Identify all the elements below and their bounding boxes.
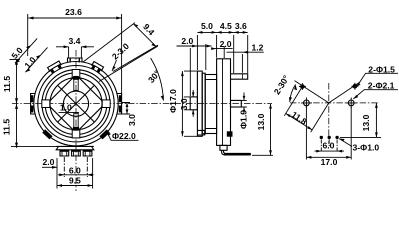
upper-right 30deg tab: [90, 62, 103, 74]
dimension 9.4 diagonal: [83, 22, 158, 72]
dimension 11.5 lower: [2, 104, 57, 148]
svg-text:Φ17.0: Φ17.0: [168, 89, 178, 113]
terminal 2: [72, 150, 81, 156]
dimension 3.0 right tab: [122, 103, 137, 126]
svg-text:6.0: 6.0: [323, 140, 335, 150]
svg-text:3.6: 3.6: [235, 21, 247, 31]
centerline horizontal: [12, 103, 272, 105]
notch rect south: [72, 130, 80, 138]
svg-text:1.0: 1.0: [60, 103, 72, 113]
dimension 23.6 top: [28, 7, 122, 93]
dimension 2-3.0 diagonal: [110, 41, 131, 71]
plate bottom foot: [197, 130, 204, 135]
svg-text:3-Φ1.0: 3-Φ1.0: [353, 143, 380, 153]
dimension 2.0 case lip: [211, 39, 232, 58]
svg-text:4.5: 4.5: [220, 21, 232, 31]
hole 2-phi2.1 right: [346, 98, 357, 109]
svg-text:3.4: 3.4: [69, 36, 81, 46]
left tab: [31, 94, 35, 115]
dimension 2.0 stub: [177, 36, 212, 96]
svg-text:17.0: 17.0: [321, 157, 338, 167]
dimension phi1.9 pin: [239, 93, 249, 130]
hole 2-phi1.5 right: [351, 83, 358, 90]
dimension 17.0 right: [306, 107, 351, 167]
lower-right crimp mark: [99, 129, 109, 139]
svg-text:13.0: 13.0: [361, 114, 371, 131]
svg-text:Φ22.0: Φ22.0: [112, 131, 136, 141]
notch rect north: [72, 70, 80, 78]
label 1.0 slot width: [59, 103, 80, 113]
terminal 3: [83, 150, 92, 156]
V line left: [295, 81, 329, 103]
outer circle body: [34, 61, 118, 145]
svg-text:2.0: 2.0: [181, 36, 193, 46]
notch rect west: [42, 100, 50, 108]
svg-text:9.5: 9.5: [69, 176, 81, 186]
centerline vertical right view: [328, 83, 330, 144]
dimension 11.8: [284, 87, 329, 133]
case inner line: [222, 59, 224, 146]
centerline vertical: [75, 50, 77, 191]
collar plate: [202, 73, 205, 134]
svg-text:23.6: 23.6: [65, 7, 82, 17]
dimension 5.0 diagonal: [9, 45, 31, 63]
dimension 2-30 angle: [272, 73, 297, 102]
centerline horizontal right view: [290, 102, 379, 104]
svg-text:6.0: 6.0: [69, 165, 81, 175]
dimension 2.0 bottom: [42, 157, 57, 169]
svg-text:11.5: 11.5: [2, 76, 12, 92]
small hole 3-phi1.0 c: [335, 136, 338, 139]
phi1.9 pin: [231, 100, 242, 107]
label 3-phi1.0: [339, 139, 379, 153]
svg-text:5.0: 5.0: [201, 21, 213, 31]
top mounting tab: [231, 74, 248, 79]
bottom slot rectangle: [73, 113, 79, 130]
dimension 1.2 tab bend: [227, 42, 264, 72]
label 2-phi2.1: [353, 80, 398, 99]
bottom skirt: [56, 146, 94, 149]
rotor cross slot X lines: [58, 86, 94, 122]
notch rect east: [102, 100, 110, 108]
main case: [217, 59, 231, 146]
upper-left 30deg tab: [48, 61, 63, 74]
dimension 13.0 middle: [252, 104, 273, 156]
dimension phi22.0 label: [107, 131, 139, 141]
top tab: [68, 58, 83, 63]
rotor diamond: [47, 75, 105, 133]
dimension 5.0 4.5 3.6 top: [197, 21, 247, 73]
dimension 6.0 right: [315, 140, 345, 152]
ring circle 3: [42, 70, 110, 138]
label 2-phi1.5: [356, 64, 398, 87]
svg-text:2.0: 2.0: [43, 157, 55, 167]
svg-text:13.0: 13.0: [256, 113, 266, 130]
dimension 6.0 bottom: [58, 157, 94, 177]
small hole 3-phi1.0 b: [328, 136, 331, 139]
hole 2-phi1.5 left: [299, 83, 306, 90]
svg-text:2-Φ2.1: 2-Φ2.1: [368, 80, 395, 90]
mid body inner lines: [205, 80, 216, 129]
rotor circle: [50, 78, 102, 130]
lower-left crimp mark: [42, 129, 52, 139]
svg-text:3.0: 3.0: [127, 114, 137, 126]
shaft stub: [190, 97, 197, 110]
ring circle 4: [45, 73, 107, 135]
dimension 3.0 stub dia: [179, 90, 195, 117]
svg-text:Φ1.9: Φ1.9: [239, 110, 249, 129]
bottom skirt: [220, 145, 227, 150]
svg-text:1.2: 1.2: [252, 42, 264, 52]
hole 2-phi2.1 left: [301, 98, 312, 109]
pin centerlines: [321, 140, 337, 152]
front plate: [197, 71, 202, 136]
inner circle: [63, 91, 88, 116]
svg-text:3.0: 3.0: [179, 98, 189, 110]
dimension 1.0 diagonal: [22, 38, 47, 72]
right tab: [117, 94, 122, 115]
dimension 30deg angle: [99, 46, 164, 101]
svg-text:11.5: 11.5: [2, 119, 12, 135]
dark ring: [38, 66, 114, 142]
crimp blob side: [227, 131, 233, 136]
V line right: [329, 82, 360, 103]
terminal 1: [60, 150, 69, 156]
small hole 3-phi1.0 a: [320, 136, 323, 139]
mid body: [205, 75, 216, 134]
bent leg: [222, 150, 251, 155]
dimension 9.5 bottom: [57, 158, 93, 189]
dimension 11.5 upper: [2, 60, 20, 148]
svg-text:2.0: 2.0: [220, 39, 232, 49]
top slot rectangle: [73, 76, 79, 90]
dimension 3.4 top tab: [56, 36, 94, 58]
dimension phi17.0: [168, 71, 197, 136]
dimension 13.0 right: [340, 103, 381, 137]
